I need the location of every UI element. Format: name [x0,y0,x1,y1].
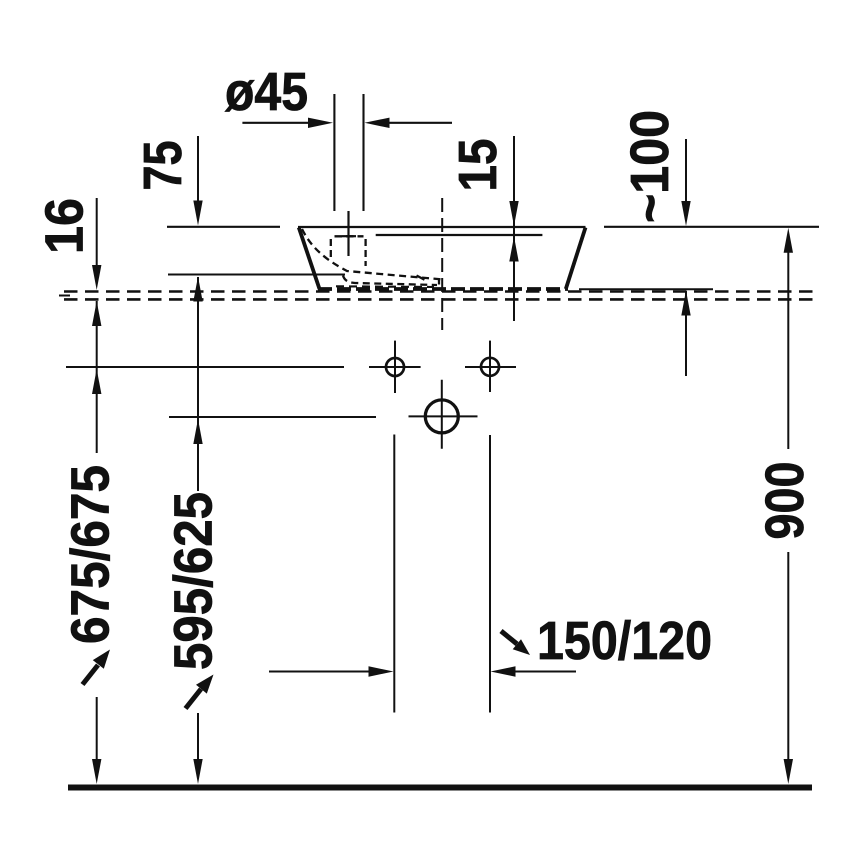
bowl bottom lower hidden line [343,276,437,286]
faucet hole left circle [386,358,404,376]
dim 16 upper line with down arrow [92,198,101,290]
dim ~100 lower line with up arrow [681,291,690,377]
washbasin bottom edge (thick dashed) [318,287,568,291]
dim ø45 line left with arrow [242,118,333,128]
dim 595/625 leader arrow [186,675,214,709]
bowl interior hidden contour (dashed curve) [302,229,443,280]
countertop top surface (dashed) [64,290,815,293]
basin vertical centreline [441,198,443,330]
drain outlet hidden stub [438,280,440,288]
drain body hidden outline top [335,235,364,237]
label 595/625 (supply connection height) [164,492,224,670]
svg-text:15: 15 [448,139,508,192]
bowl shell outer hidden line [336,285,434,288]
drain centre vertical tick [347,211,349,256]
washbasin left slant wall [299,228,320,290]
extension line rim level right [604,226,819,228]
label 900 (rim height above floor) [755,462,815,540]
svg-text:595/625: 595/625 [164,492,224,670]
dim 16 lower / 675 upper shared vertical with up arrows [92,301,101,453]
dim 150/120 extension line right [489,435,491,713]
extension line supply hole level [169,416,376,418]
dim 75 upper line with down arrow [193,136,202,226]
washbasin inner rim line [376,234,543,236]
label ~100 (basin height above counter) [620,110,680,223]
washbasin top rim edge [298,226,586,228]
dim 150/120 line left with arrow [269,666,394,676]
dim 150/120 leader arrow [501,631,530,655]
faucet hole right centre cross [465,341,516,392]
dim ø45 extension line right [362,94,364,211]
extension line faucet hole level [66,366,344,368]
svg-text:75: 75 [133,141,193,191]
label 75 (bowl inner depth) [133,141,193,191]
dim 75 / 595 shared vertical with up arrows [193,277,202,492]
label 675/675 (faucet hole height) [61,465,121,644]
dim ~100 upper line with down arrow [681,139,690,226]
svg-text:16: 16 [35,198,95,254]
faucet hole right circle [481,358,499,376]
dim 900 upper line with up arrow [784,228,793,449]
label ø45 (drain diameter) [225,62,308,122]
svg-text:675/675: 675/675 [61,465,121,644]
label 150/120 (hole spacing) [537,611,712,671]
drain outlet hidden diagonal [417,276,427,281]
countertop bottom surface (dashed) [64,298,815,301]
dim 900 lower line with floor arrow [784,552,793,784]
dim 150/120 extension line left [393,435,395,713]
dim ø45 line right with arrow [365,118,453,128]
dim 15 vertical with arrows [509,136,518,321]
washbasin right slant wall [566,228,586,290]
label 16 (countertop thickness) [35,198,95,254]
svg-text:900: 900 [755,462,815,540]
dim 150/120 line right with arrow [491,666,577,676]
extension line rim level left [167,226,280,228]
supply hole circle [425,400,458,433]
label 15 (rim to inner ledge) [448,139,508,192]
faucet hole left centre cross [369,341,421,393]
drain body hidden outline right [364,239,366,266]
countertop section centreline tick [59,295,70,297]
floor line [68,785,812,791]
drain body hidden outline left [330,239,332,259]
extension line bowl floor level [168,273,345,275]
dim 675/675 lower line with floor arrow [92,697,101,784]
svg-text:~100: ~100 [620,110,680,223]
dim 675/675 leader arrow [83,650,111,685]
dim ø45 extension line left [333,94,335,211]
svg-text:150/120: 150/120 [537,611,712,671]
extension line counter level right [579,288,713,290]
drain centre horizontal tick [342,235,356,237]
svg-text:ø45: ø45 [225,62,308,122]
supply hole centre cross [409,380,478,449]
dim 595/625 lower line with floor arrow [193,713,202,784]
